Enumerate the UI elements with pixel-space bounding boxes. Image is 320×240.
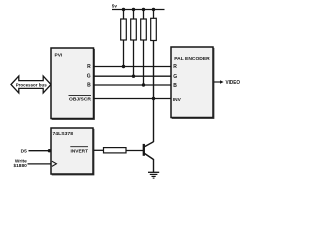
wire R5 to base: [126, 150, 144, 152]
junction dot rail R1: [122, 8, 125, 11]
svg-text:R: R: [87, 64, 91, 70]
junction dot D5 at box: [48, 149, 51, 152]
svg-text:Processor bus: Processor bus: [16, 82, 47, 87]
svg-text:INVERT: INVERT: [71, 148, 89, 154]
junction dot R net: [122, 65, 125, 68]
wire emitter to ground: [153, 159, 155, 172]
74LS378 clock pin triangle: [52, 161, 57, 166]
resistor R3: [141, 10, 147, 86]
wire 5v rail: [112, 9, 165, 11]
PAL pin R label: [173, 64, 177, 70]
wire D5 input: [29, 150, 52, 152]
junction dot G net: [132, 75, 135, 78]
PAL pin G label: [173, 74, 177, 80]
5v label: [112, 3, 118, 8]
junction dot rail R2: [132, 8, 135, 11]
junction dot B net: [142, 83, 145, 86]
resistor R4: [151, 10, 157, 143]
svg-text:VIDEO: VIDEO: [226, 80, 241, 86]
processor bus arrow: [11, 76, 51, 93]
IC U3 PAL ENCODER box: [171, 47, 214, 118]
junction dot rail R3: [142, 8, 145, 11]
74LS378 INVERT output label: [70, 147, 88, 155]
svg-text:D5: D5: [21, 148, 27, 154]
D5 label: [21, 148, 27, 154]
svg-text:OBJ/SCR: OBJ/SCR: [69, 96, 92, 101]
PVI pin B label: [87, 83, 91, 89]
IC U1 PVI box: [51, 48, 94, 119]
svg-text:PVI: PVI: [55, 53, 63, 59]
svg-text:5v: 5v: [112, 3, 118, 8]
IC U2 74LS378 box: [51, 128, 94, 175]
PVI pin G label: [87, 74, 91, 80]
wire OBJ/SCR to INV net: [94, 98, 171, 100]
Write $1880 label: [13, 159, 27, 169]
wire B net: [94, 84, 171, 86]
wire Write $1880 clock input: [28, 163, 52, 165]
svg-text:$1880: $1880: [13, 163, 27, 169]
junction dot rail R4: [152, 8, 155, 11]
svg-text:INV: INV: [173, 97, 182, 103]
wire INVERT output to R5: [94, 149, 104, 151]
svg-text:PAL ENCODER: PAL ENCODER: [174, 56, 210, 62]
svg-text:G: G: [173, 74, 177, 80]
svg-text:74LS378: 74LS378: [53, 131, 74, 137]
resistor R5: [104, 148, 127, 153]
junction dot INV net: [152, 97, 155, 100]
svg-text:B: B: [87, 83, 91, 89]
resistor R1: [121, 10, 127, 67]
PAL pin B label: [173, 83, 177, 89]
transistor Q1: [144, 142, 154, 160]
ground: [148, 172, 159, 178]
svg-text:G: G: [87, 74, 91, 80]
VIDEO output arrow: [214, 80, 240, 86]
PVI pin OBJ/SCR label: [69, 95, 92, 101]
PAL pin INV label: [173, 97, 182, 103]
resistor R2: [131, 10, 137, 77]
svg-text:R: R: [173, 64, 177, 70]
wire G net: [94, 75, 171, 77]
PVI pin R label: [87, 64, 91, 70]
svg-text:B: B: [173, 83, 177, 89]
wire R net: [94, 66, 171, 68]
